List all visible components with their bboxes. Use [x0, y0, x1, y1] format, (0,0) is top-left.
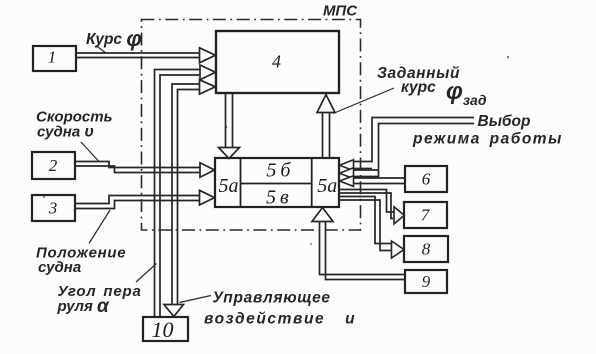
label Скорость судна v [36, 109, 113, 141]
svg-text:5 б: 5 б [266, 160, 291, 182]
wire 6→5а [340, 176, 406, 187]
leader заданный курс [333, 88, 394, 114]
block 6 [405, 166, 447, 192]
label Управляющее воздействие и [204, 290, 356, 328]
leader управляющее воздействие [180, 296, 212, 303]
label Угол пера руля α [57, 283, 142, 317]
svg-text:10: 10 [152, 317, 174, 342]
wire 10→4 (feedback pair A) [155, 65, 216, 317]
svg-text:8: 8 [422, 240, 431, 259]
svg-text:5а: 5а [219, 175, 239, 197]
svg-text:МПС: МПС [323, 3, 358, 20]
leader положение судна [89, 210, 110, 244]
svg-text:курс: курс [401, 79, 436, 96]
wire выбор режима →5а (two branch arrows) [340, 118, 475, 179]
block 8 [404, 236, 448, 262]
svg-text:воздействие и: воздействие и [204, 311, 356, 328]
svg-text:6: 6 [422, 170, 431, 189]
wire 2→5а (скорость судна) [75, 162, 215, 178]
label Выбор режима работы [412, 113, 563, 148]
block 4 [216, 31, 339, 93]
wire 9→5в (up arrow) [312, 208, 405, 280]
block 3 [32, 195, 75, 221]
wire 5→7 [339, 190, 404, 224]
svg-text:2: 2 [49, 156, 58, 175]
wire 4↔10 (pair B, управляющее воздействие) [164, 80, 215, 317]
block 1 [33, 46, 76, 71]
svg-text:3: 3 [48, 199, 58, 218]
block 5 (cells 5а 5б 5в 5а) [215, 158, 339, 209]
svg-text:9: 9 [422, 272, 431, 291]
svg-text:Управляющее: Управляющее [213, 290, 331, 307]
svg-text:судна υ: судна υ [37, 124, 94, 141]
block 9 [405, 270, 447, 293]
label Положение судна [36, 245, 126, 277]
wire 1→4 (курс φ) [76, 48, 216, 63]
svg-text:Выбор: Выбор [478, 113, 531, 130]
leader угол пера руля [136, 264, 157, 283]
leader скорость судна [81, 142, 99, 162]
block 10 [143, 317, 188, 342]
svg-text:5 в: 5 в [266, 187, 289, 209]
block 7 [404, 202, 447, 228]
svg-text:руля α: руля α [57, 296, 110, 317]
svg-text:режима работы: режима работы [412, 131, 563, 148]
wire 4→5 (down arrow) [219, 93, 240, 159]
wire 5б→4 (заданный курс, up arrow) [317, 95, 335, 159]
svg-text:5а: 5а [317, 175, 337, 197]
leader курс φ [96, 46, 107, 54]
wire 5→8 [339, 197, 404, 259]
label Заданный курс φ_зад [377, 65, 487, 108]
svg-text:4: 4 [272, 52, 281, 72]
svg-text:судна: судна [38, 259, 81, 276]
block 2 [32, 152, 75, 179]
МПС boundary frame (dash-dot) [142, 20, 361, 231]
svg-text:1: 1 [48, 48, 57, 67]
wire 3→5а (положение судна) [75, 190, 215, 208]
